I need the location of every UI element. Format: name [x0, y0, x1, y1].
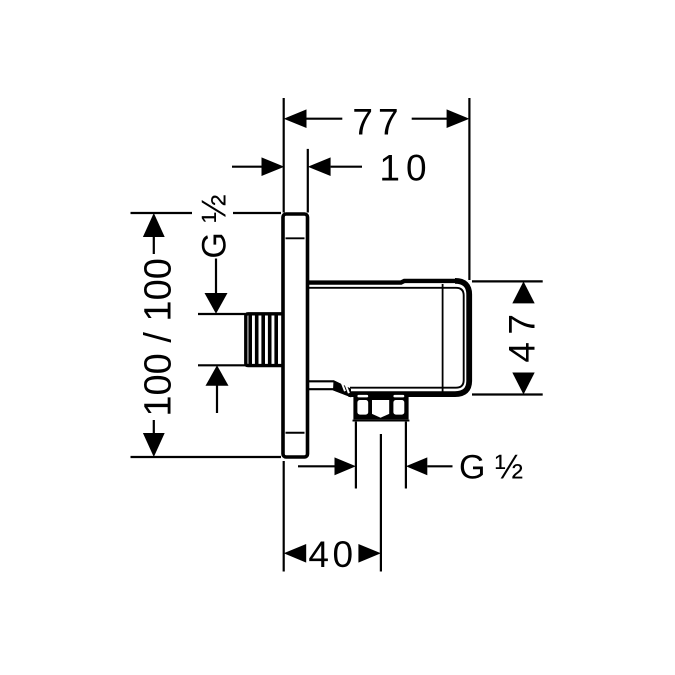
dimension 40: left extension line — [283, 461, 285, 572]
dimension G1/2 top: down arrowhead — [205, 293, 228, 314]
dimension G1/2 top: lower stem — [216, 385, 218, 413]
dimension 47: bottom extension line — [472, 393, 543, 395]
nut left facet window — [357, 400, 368, 415]
dimension G1/2 top: stem from text — [215, 259, 217, 294]
dimension G1/2 top: up arrowhead — [206, 365, 229, 386]
threaded pipe thread hatch — [250, 316, 276, 365]
hose connection nut body — [353, 392, 408, 420]
valve body bottom step lower line — [309, 389, 352, 396]
dimension 100/100: upper stem — [153, 236, 155, 254]
dimension 77: right arrowhead — [447, 109, 470, 128]
dimension 100/100: lower stem — [153, 420, 155, 434]
dimension 10: right leader line — [331, 166, 362, 168]
valve body step chamfer band — [333, 380, 351, 397]
wall plate outline — [283, 214, 308, 457]
wall plate lower face line — [286, 432, 305, 434]
svg-text:100 / 100: 100 / 100 — [138, 258, 180, 416]
dimension G1/2 bottom: right leader — [427, 465, 452, 467]
dimension 40: right arrowhead (points right) — [358, 544, 381, 563]
dimension 10: right arrowhead (points left) — [308, 157, 331, 176]
dimension G1/2 bottom: right arrowhead (points left) — [406, 457, 427, 475]
dimension 77: left extension line — [283, 98, 285, 213]
dimension G1/2 bottom: left arrowhead (points right) — [335, 457, 356, 475]
dimension 10: right extension line — [307, 149, 309, 213]
svg-text:G ½: G ½ — [196, 194, 234, 258]
dimension G1/2 bottom: left extension line — [355, 422, 357, 489]
nut bottom edge line — [353, 420, 410, 422]
svg-text:10: 10 — [379, 148, 432, 189]
dimension 77: dimension line right segment — [412, 118, 449, 120]
valve body bottom step upper line — [309, 381, 350, 389]
dimension 100/100: down arrowhead — [143, 433, 165, 457]
dimension 77: left arrowhead — [284, 109, 307, 128]
svg-text:47: 47 — [501, 307, 542, 363]
valve body step white hatch slashes — [342, 383, 349, 393]
nut middle facet window — [372, 400, 389, 418]
valve body outer outline top edge — [307, 281, 458, 283]
pipe top extension line — [198, 313, 245, 315]
nut right facet window — [393, 400, 404, 415]
dimension 47: up arrowhead — [512, 281, 534, 303]
dimension 47: down arrowhead — [512, 373, 534, 395]
svg-text:G ½: G ½ — [459, 449, 523, 487]
dimension 77: right extension line — [468, 98, 470, 280]
valve body inner outline — [309, 288, 464, 388]
dimension 10: left arrowhead (points right) — [262, 157, 285, 176]
dimension 47: top extension line — [472, 280, 543, 282]
dimension 100/100: bottom extension line — [131, 456, 282, 458]
dimension G1/2 bottom: left leader — [298, 465, 336, 467]
svg-text:40: 40 — [308, 534, 356, 575]
valve body outer outline right and bottom — [349, 281, 470, 394]
wall plate upper face line — [286, 237, 305, 239]
dimension 40: right extension line (nut centerline) — [380, 434, 382, 572]
valve body front face line — [442, 284, 444, 392]
nut left top highlight dash — [357, 395, 368, 398]
svg-text:77: 77 — [352, 101, 403, 142]
dimension 77: dimension line left segment — [305, 118, 342, 120]
dimension G1/2 bottom: right extension line — [405, 422, 407, 489]
threaded pipe outline — [246, 314, 283, 366]
dimension 40: left arrowhead (points left) — [284, 544, 307, 563]
pipe bottom extension line — [198, 364, 245, 366]
dimension 100/100: up arrowhead — [143, 213, 165, 237]
nut right top highlight dash — [393, 395, 404, 398]
dimension 10: left leader line — [232, 166, 263, 168]
dimension 100/100: top extension line (broken around G 1/2 text) — [131, 212, 193, 214]
